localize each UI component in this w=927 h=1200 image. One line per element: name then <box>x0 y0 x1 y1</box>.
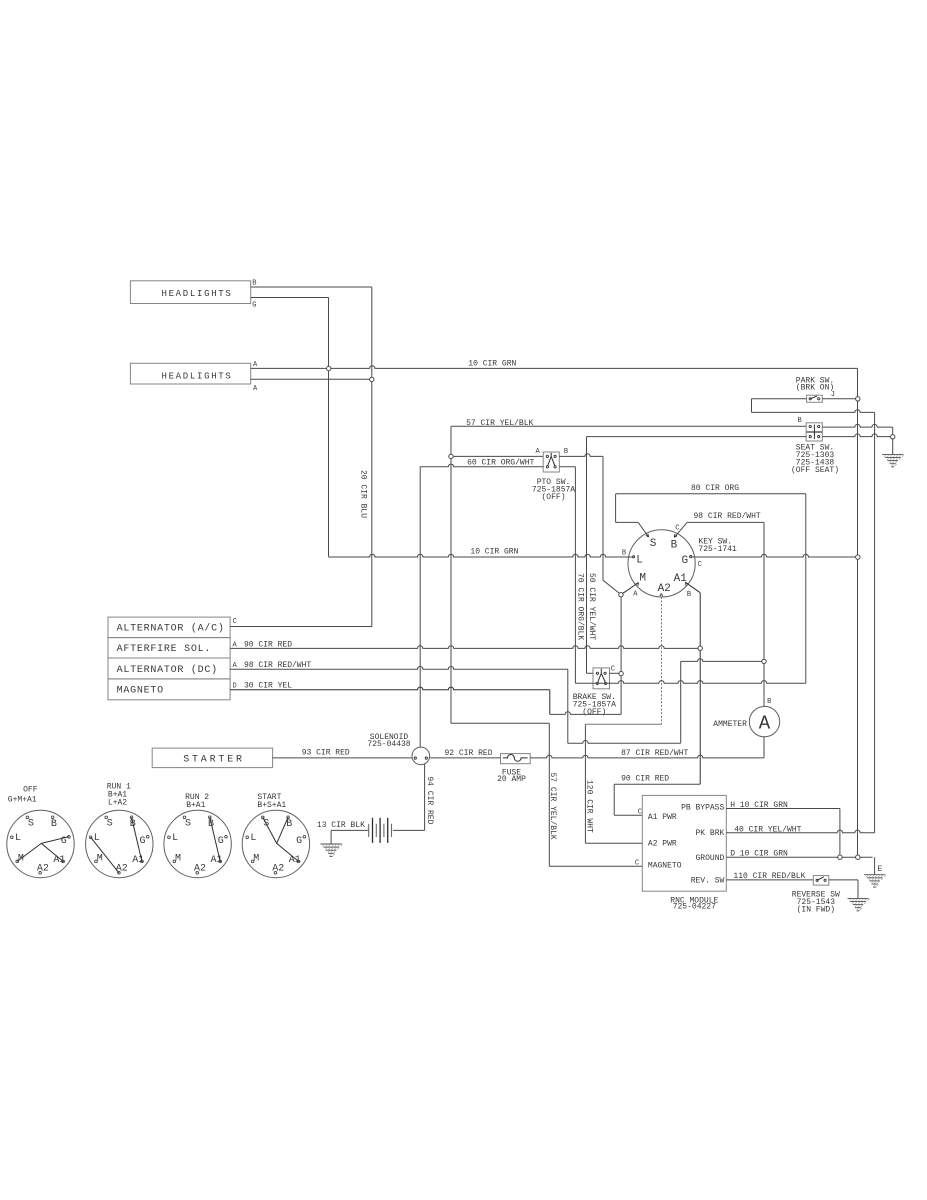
svg-text:A2: A2 <box>272 864 284 875</box>
svg-text:L: L <box>172 833 178 844</box>
svg-text:40 CIR YEL/WHT: 40 CIR YEL/WHT <box>734 825 801 834</box>
svg-text:B: B <box>671 540 678 552</box>
svg-text:A1: A1 <box>289 855 301 866</box>
svg-text:C: C <box>638 809 642 817</box>
svg-text:120 CIR WHT: 120 CIR WHT <box>585 780 594 833</box>
svg-text:B: B <box>767 698 771 706</box>
svg-text:80 CIR ORG: 80 CIR ORG <box>691 484 739 493</box>
svg-text:(IN FWD): (IN FWD) <box>797 906 835 915</box>
svg-text:(OFF): (OFF) <box>541 493 565 502</box>
svg-text:G: G <box>252 302 256 310</box>
svg-text:725-1741: 725-1741 <box>698 545 737 554</box>
svg-text:OFF: OFF <box>23 786 38 795</box>
svg-text:98 CIR RED/WHT: 98 CIR RED/WHT <box>244 661 311 670</box>
svg-text:94 CIR RED: 94 CIR RED <box>425 776 434 824</box>
svg-text:MAGNETO: MAGNETO <box>648 862 682 871</box>
svg-text:110 CIR RED/BLK: 110 CIR RED/BLK <box>733 872 805 881</box>
svg-text:93 CIR RED: 93 CIR RED <box>302 748 350 757</box>
svg-text:57 CIR YEL/BLK: 57 CIR YEL/BLK <box>548 773 557 840</box>
svg-text:B: B <box>51 819 57 830</box>
svg-text:(OFF): (OFF) <box>582 708 606 717</box>
svg-text:STARTER: STARTER <box>183 755 245 766</box>
svg-text:S: S <box>28 818 34 829</box>
svg-text:A2: A2 <box>116 864 128 875</box>
svg-text:A1: A1 <box>53 855 65 866</box>
svg-text:HEADLIGHTS: HEADLIGHTS <box>161 289 232 299</box>
svg-text:ALTERNATOR (DC): ALTERNATOR (DC) <box>117 664 218 676</box>
svg-text:B: B <box>687 591 691 599</box>
svg-text:10 CIR GRN: 10 CIR GRN <box>468 359 516 368</box>
svg-text:H 10 CIR GRN: H 10 CIR GRN <box>730 801 788 810</box>
svg-text:PB BYPASS: PB BYPASS <box>681 804 724 813</box>
svg-text:98 CIR RED/WHT: 98 CIR RED/WHT <box>694 512 761 521</box>
svg-text:B: B <box>798 417 802 425</box>
svg-text:87 CIR RED/WHT: 87 CIR RED/WHT <box>621 749 688 758</box>
svg-text:A: A <box>759 712 771 734</box>
svg-text:G: G <box>218 836 224 847</box>
svg-text:C: C <box>233 618 237 626</box>
svg-text:S: S <box>107 818 113 829</box>
svg-text:D 10 CIR GRN: D 10 CIR GRN <box>730 849 788 858</box>
svg-text:B+A1: B+A1 <box>186 801 205 810</box>
svg-text:(OFF SEAT): (OFF SEAT) <box>791 466 839 475</box>
svg-text:B: B <box>622 549 626 557</box>
svg-text:92 CIR RED: 92 CIR RED <box>445 749 493 758</box>
svg-text:13 CIR BLK: 13 CIR BLK <box>317 821 365 830</box>
svg-text:C: C <box>675 524 679 532</box>
svg-text:C: C <box>611 665 615 673</box>
svg-text:GROUND: GROUND <box>695 854 724 863</box>
svg-text:ALTERNATOR (A/C): ALTERNATOR (A/C) <box>117 623 225 635</box>
svg-text:G: G <box>296 836 302 847</box>
svg-text:A1: A1 <box>211 855 223 866</box>
svg-text:L: L <box>15 833 21 844</box>
svg-text:A1 PWR: A1 PWR <box>648 813 677 822</box>
svg-text:725-04438: 725-04438 <box>367 740 410 749</box>
svg-text:A2: A2 <box>37 864 49 875</box>
svg-text:725-04227: 725-04227 <box>673 903 716 912</box>
svg-text:20 AMP: 20 AMP <box>497 775 526 784</box>
svg-text:C: C <box>635 859 639 867</box>
svg-text:HEADLIGHTS: HEADLIGHTS <box>161 372 232 382</box>
svg-text:A1: A1 <box>674 573 688 585</box>
svg-text:B+S+A1: B+S+A1 <box>257 801 286 810</box>
svg-text:M: M <box>97 853 103 864</box>
svg-text:A2 PWR: A2 PWR <box>648 840 677 849</box>
svg-text:30 CIR YEL: 30 CIR YEL <box>244 682 292 691</box>
svg-text:10 CIR GRN: 10 CIR GRN <box>470 548 518 557</box>
svg-text:A1: A1 <box>132 855 144 866</box>
svg-text:L+A2: L+A2 <box>108 799 127 808</box>
svg-text:C: C <box>698 561 702 569</box>
svg-text:PK BRK: PK BRK <box>695 829 724 838</box>
svg-text:20 CIR BLU: 20 CIR BLU <box>359 470 368 518</box>
svg-text:60 CIR ORG/WHT: 60 CIR ORG/WHT <box>467 458 534 467</box>
svg-text:A2: A2 <box>658 583 671 595</box>
svg-text:J: J <box>831 391 835 399</box>
svg-text:G: G <box>140 836 146 847</box>
svg-text:M: M <box>175 853 181 864</box>
svg-text:AMMETER: AMMETER <box>713 720 747 729</box>
svg-text:B: B <box>564 448 568 456</box>
svg-text:E: E <box>878 865 883 874</box>
svg-text:L: L <box>250 833 256 844</box>
svg-text:AFTERFIRE SOL.: AFTERFIRE SOL. <box>117 644 212 655</box>
svg-text:M: M <box>253 853 259 864</box>
svg-text:B: B <box>286 819 292 830</box>
svg-text:S: S <box>185 818 191 829</box>
svg-text:57 CIR YEL/BLK: 57 CIR YEL/BLK <box>466 419 533 428</box>
svg-text:90 CIR RED: 90 CIR RED <box>621 775 669 784</box>
svg-text:A2: A2 <box>194 864 206 875</box>
svg-text:REV. SW: REV. SW <box>691 877 725 886</box>
svg-text:MAGNETO: MAGNETO <box>117 685 164 696</box>
svg-text:B: B <box>252 280 256 288</box>
svg-text:(BRK ON): (BRK ON) <box>796 384 834 393</box>
svg-text:70 CIR ORG/BLK: 70 CIR ORG/BLK <box>576 573 585 640</box>
svg-text:M: M <box>639 573 646 585</box>
svg-text:G+M+A1: G+M+A1 <box>8 796 37 805</box>
svg-text:50 CIR YEL/WHT: 50 CIR YEL/WHT <box>587 573 596 640</box>
svg-text:S: S <box>650 538 657 550</box>
svg-text:L: L <box>636 554 643 566</box>
svg-text:G: G <box>682 555 689 567</box>
